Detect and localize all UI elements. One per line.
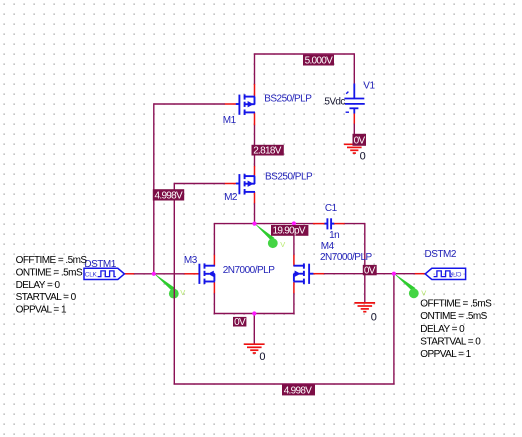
pin M3 drain top: [213, 255, 215, 266]
ground 0 below block: [244, 344, 265, 353]
capacitor C1: [325, 218, 335, 229]
pin DSTM2 in: [415, 273, 425, 275]
bias label 0V at M4 gate: [363, 265, 377, 277]
wire block left lower: [213, 293, 215, 314]
svg-text:0: 0: [371, 311, 377, 323]
wire DSTM1 to input node: [134, 273, 185, 275]
wire V1 top lead: [353, 53, 355, 84]
svg-text:2N7000/PLP: 2N7000/PLP: [320, 252, 373, 263]
junction node C1 left: [292, 221, 296, 225]
wire feedback vertical: [173, 183, 175, 384]
svg-text:DELAY = 0: DELAY = 0: [16, 280, 61, 291]
svg-text:0: 0: [259, 351, 265, 363]
pin C1 left: [313, 223, 325, 225]
probe V1 marker at node DSTM1: [155, 274, 186, 299]
svg-text:V: V: [421, 288, 426, 297]
junction node output: [392, 272, 396, 276]
wire block bottom: [214, 313, 295, 315]
svg-text:19.90pV: 19.90pV: [273, 226, 306, 237]
svg-text:5Vdc: 5Vdc: [324, 97, 345, 108]
svg-text:OFFTIME = .5mS: OFFTIME = .5mS: [420, 299, 492, 310]
svg-text:DSTM2: DSTM2: [425, 249, 457, 260]
bias label 4.998V bottom: [282, 384, 315, 396]
transistor M3 2N7000/PLP (NMOS): [199, 263, 215, 284]
pin DSTM1 out: [124, 273, 134, 275]
svg-text:2.818V: 2.818V: [253, 145, 282, 156]
transistor M2 BS250/PLP (PMOS): [236, 174, 255, 195]
DSTM1 parameter text: [16, 255, 88, 316]
wire C1 down to gate row: [364, 223, 366, 303]
wire block right upper: [293, 223, 295, 255]
svg-text:0V: 0V: [354, 136, 366, 147]
red pin stubs: [124, 84, 425, 293]
pin M2 gate: [225, 183, 236, 185]
svg-text:1n: 1n: [329, 230, 339, 241]
junction node block bottom: [252, 311, 256, 315]
svg-text:BS250/PLP: BS250/PLP: [264, 93, 312, 104]
junction node N2 top: [252, 222, 256, 226]
svg-text:M2: M2: [224, 192, 238, 203]
bias label 2.818V: [252, 145, 284, 157]
svg-text:M1: M1: [223, 115, 237, 126]
pin M4 source bottom: [293, 282, 295, 293]
svg-text:ONTIME = .5mS: ONTIME = .5mS: [16, 267, 83, 278]
bias label 0V below block: [233, 317, 246, 328]
wire output vertical: [393, 273, 395, 384]
svg-text:STARTVAL = 0: STARTVAL = 0: [16, 292, 77, 303]
bias label 5.000V: [303, 55, 334, 67]
pin M4 gate: [313, 273, 324, 275]
wire node N2 to ground: [253, 314, 255, 344]
wire M4 gate to output node: [324, 273, 394, 275]
svg-text:BS250/PLP: BS250/PLP: [265, 171, 313, 182]
svg-text:CLK: CLK: [85, 271, 98, 278]
pin M4 drain top: [293, 255, 295, 266]
voltage source V1 5Vdc battery: [344, 84, 364, 114]
svg-text:DELAY = 0: DELAY = 0: [420, 324, 465, 335]
wire M2 drain down: [254, 203, 256, 224]
bias label 19.90pV: [271, 225, 308, 237]
digital stimulus DSTM2 (mirrored): [425, 268, 465, 279]
svg-text:OPPVAL = 1: OPPVAL = 1: [16, 305, 67, 316]
pin M3 source bottom: [213, 282, 215, 293]
digital stimulus DSTM1: [84, 268, 124, 279]
svg-text:CLK: CLK: [449, 271, 462, 278]
pin M2 source top: [254, 166, 256, 176]
wire top 5V rail: [255, 53, 355, 55]
svg-text:V1: V1: [363, 80, 375, 91]
svg-text:5.000V: 5.000V: [305, 55, 334, 66]
wire M2 gate horizontal: [174, 183, 225, 185]
ground 0 at V1: [344, 144, 365, 153]
wire block left upper: [213, 223, 215, 255]
wire bottom rail: [174, 383, 395, 385]
wire V1 bottom to ground: [353, 123, 355, 144]
bias label 4.998V upper: [153, 189, 184, 201]
svg-text:4.998V: 4.998V: [155, 190, 184, 201]
svg-text:V: V: [280, 240, 285, 249]
DSTM2 parameter text: [420, 299, 492, 360]
pin M1 gate: [225, 103, 236, 105]
svg-text:M3: M3: [184, 255, 198, 266]
pin C1 right: [334, 223, 345, 225]
ground 0 at M4 gate net: [354, 303, 375, 312]
pin M3 gate: [184, 273, 199, 275]
bias label 0V at V1: [353, 134, 367, 147]
svg-text:M4: M4: [321, 241, 335, 252]
wire M1 to M2: [254, 125, 256, 167]
transistor M4 2N7000/PLP (NMOS, mirrored): [294, 263, 314, 284]
svg-text:STARTVAL = 0: STARTVAL = 0: [420, 336, 481, 347]
svg-text:0V: 0V: [364, 266, 376, 277]
probe V2 marker at node N2: [255, 224, 285, 249]
pin M1 source top: [254, 84, 256, 97]
svg-text:OPPVAL = 1: OPPVAL = 1: [420, 349, 471, 360]
wire M1 drain from rail: [254, 53, 256, 84]
svg-text:2N7000/PLP: 2N7000/PLP: [223, 265, 276, 276]
wire left vertical input net: [153, 103, 155, 273]
svg-text:0: 0: [360, 151, 366, 163]
pin V1 minus: [353, 113, 355, 123]
wire block top: [214, 223, 294, 225]
wire block right lower: [293, 293, 295, 314]
svg-text:V: V: [180, 288, 185, 297]
wire C1 left link: [294, 223, 313, 225]
svg-text:0V: 0V: [234, 317, 246, 328]
transistor M1 BS250/PLP (PMOS): [236, 94, 255, 115]
wire output node to DSTM2: [394, 273, 415, 275]
inner block white area: [215, 225, 294, 314]
pin M1 drain bottom: [254, 112, 256, 125]
svg-text:DSTM1: DSTM1: [84, 259, 116, 270]
wire M1 gate horizontal: [154, 103, 225, 105]
svg-text:ONTIME = .5mS: ONTIME = .5mS: [420, 311, 487, 322]
wire C1 right link: [344, 223, 365, 225]
svg-text:C1: C1: [325, 203, 338, 214]
junction node input: [152, 272, 156, 276]
pin M2 drain bottom: [254, 192, 256, 203]
svg-text:OFFTIME = .5mS: OFFTIME = .5mS: [16, 255, 88, 266]
svg-text:4.998V: 4.998V: [284, 385, 313, 396]
probe V3 marker at output node: [395, 274, 427, 299]
